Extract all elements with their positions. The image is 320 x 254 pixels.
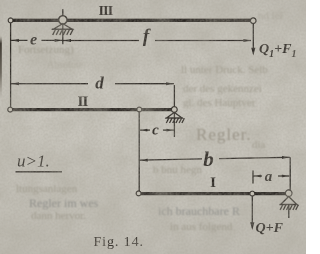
support stem beam II xyxy=(173,85,175,137)
dimension d xyxy=(11,83,88,85)
load arrow Q1+F1 xyxy=(252,23,254,53)
beam I xyxy=(139,192,289,195)
pin mid beam II xyxy=(137,107,142,112)
beam III xyxy=(11,19,254,22)
right extension line xyxy=(289,157,291,190)
dimension a xyxy=(254,175,262,177)
left extension line xyxy=(10,23,12,110)
dimension f xyxy=(63,40,139,42)
support triangle beam II xyxy=(167,112,182,118)
svg-text:f: f xyxy=(143,26,151,47)
pin left end beam II xyxy=(8,107,13,112)
svg-text:e: e xyxy=(30,32,37,49)
support hatching beam II xyxy=(166,118,184,123)
svg-text:I: I xyxy=(210,175,216,191)
svg-text:b: b xyxy=(203,147,214,171)
support pin beam II xyxy=(171,107,177,113)
tick at a left xyxy=(252,171,254,184)
dimension e xyxy=(11,39,27,41)
svg-text:Fig. 14.: Fig. 14. xyxy=(94,235,144,250)
load arrow Q+F xyxy=(251,196,253,229)
support base beam III xyxy=(52,28,74,30)
svg-text:d: d xyxy=(95,73,104,92)
mid extension line xyxy=(138,111,140,193)
support pin beam III xyxy=(59,16,67,24)
beam II xyxy=(10,108,174,111)
support base beam I xyxy=(280,204,298,206)
svg-text:u>1.: u>1. xyxy=(17,152,50,171)
svg-text:II: II xyxy=(77,94,88,110)
support hatching beam I xyxy=(280,205,298,210)
svg-text:III: III xyxy=(99,4,113,19)
svg-text:Q+F: Q+F xyxy=(256,221,284,236)
support base beam II xyxy=(165,117,183,119)
svg-text:Q1+F1: Q1+F1 xyxy=(259,42,296,60)
support hatching beam III xyxy=(53,29,73,35)
support triangle beam I xyxy=(281,197,297,205)
support pin beam I xyxy=(285,190,292,197)
pin left end beam I xyxy=(136,191,141,196)
dimension c xyxy=(140,129,150,131)
dimension b xyxy=(140,159,202,160)
support stem below beam I xyxy=(288,205,290,218)
support triangle beam III xyxy=(53,24,72,30)
svg-text:a: a xyxy=(265,169,273,185)
bleed-through ghost text from reverse page xyxy=(258,10,283,22)
pin right end beam III xyxy=(250,18,256,24)
svg-text:c: c xyxy=(152,123,159,139)
pin left end beam III xyxy=(8,18,13,23)
pin mid beam I xyxy=(250,191,255,196)
support stem beam III xyxy=(62,9,64,44)
